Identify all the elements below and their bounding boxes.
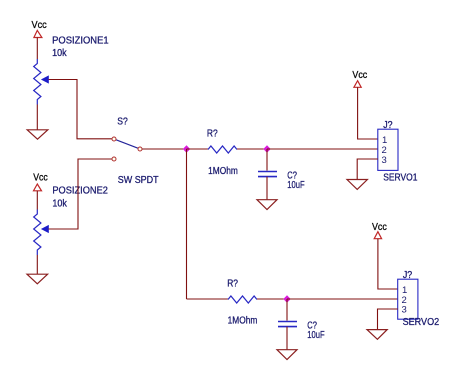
svg-text:S?: S? [117,115,128,127]
power flag Vcc (SERVO1) [352,70,367,87]
resistor R? 1MOhm (bottom) [227,277,257,326]
capacitor C? 10uF (bottom) [278,320,325,342]
wire Vcc4 to SERVO2 pin 1 [378,239,398,289]
svg-text:Vcc: Vcc [32,20,47,31]
potentiometer POSIZIONE1 10k [34,35,109,105]
wire POSIZIONE1 bottom to ground [36,105,38,130]
svg-text:3: 3 [382,155,387,166]
wire switch common to junction A [142,148,186,150]
svg-text:POSIZIONE2: POSIZIONE2 [52,185,108,197]
wire junction C to SERVO2 pin 2 [287,298,398,300]
svg-text:R?: R? [207,128,218,140]
potentiometer POSIZIONE2 10k [34,185,108,255]
ground (under C1) [257,200,277,210]
power flag Vcc (SERVO2) [372,222,387,239]
svg-text:POSIZIONE1: POSIZIONE1 [52,35,109,47]
connector J? SERVO2 [398,269,440,328]
svg-text:1MOhm: 1MOhm [208,165,238,177]
svg-text:1MOhm: 1MOhm [228,315,258,327]
wire junction B down to C1 [266,149,268,171]
ground (under SERVO1) [347,180,367,190]
wire junction A down to bottom branch [186,149,188,299]
wire Vcc2 to POSIZIONE2 top [36,191,38,210]
ground (under POSIZIONE2) [27,274,48,284]
svg-text:10k: 10k [52,47,67,59]
svg-text:10k: 10k [52,197,67,209]
capacitor C? 10uF (top) [258,170,305,192]
wire junction C down to C2 [286,299,288,321]
wire R1 to junction B [237,148,267,150]
ground (under POSIZIONE1) [27,130,48,139]
svg-text:SERVO1: SERVO1 [383,171,417,183]
wire POSIZIONE1 wiper to switch upper throw [49,80,112,139]
svg-text:10uF: 10uF [307,329,324,341]
wire POSIZIONE2 bottom to ground [36,255,38,274]
ground (under C2) [277,350,297,360]
switch S? SW SPDT [112,115,159,186]
wire R2 to junction C [257,298,287,300]
resistor R? 1MOhm (top) [207,128,238,178]
wire POSIZIONE2 wiper to switch lower throw [49,159,112,229]
junction C (node) [283,295,290,302]
svg-text:SERVO2: SERVO2 [403,316,440,328]
junction A (node) [183,145,190,152]
wire C1 to ground [266,177,268,200]
svg-text:Vcc: Vcc [372,222,387,233]
wire bottom branch to R2 [187,298,229,300]
svg-text:3: 3 [402,305,407,316]
wire Vcc1 to POSIZIONE1 top [36,38,38,60]
power flag Vcc (top-left, POSIZIONE1) [32,20,47,38]
power flag Vcc (POSIZIONE2) [33,172,48,191]
wire SERVO2 pin 3 to ground [378,309,398,329]
wire SERVO1 pin 3 to ground [357,159,378,179]
connector J? SERVO1 [378,119,418,183]
svg-text:SW SPDT: SW SPDT [118,174,159,186]
svg-text:R?: R? [227,277,238,289]
svg-text:Vcc: Vcc [352,70,367,81]
svg-text:10uF: 10uF [287,179,304,191]
junction B (node) [263,145,270,152]
wire Vcc3 to SERVO1 pin 1 [358,87,378,139]
wire junction B to SERVO1 pin 2 [267,148,378,150]
wire C2 to ground [286,327,288,350]
ground (under SERVO2) [367,330,387,340]
svg-text:Vcc: Vcc [33,172,48,183]
wire junction A to R1 [187,148,209,150]
